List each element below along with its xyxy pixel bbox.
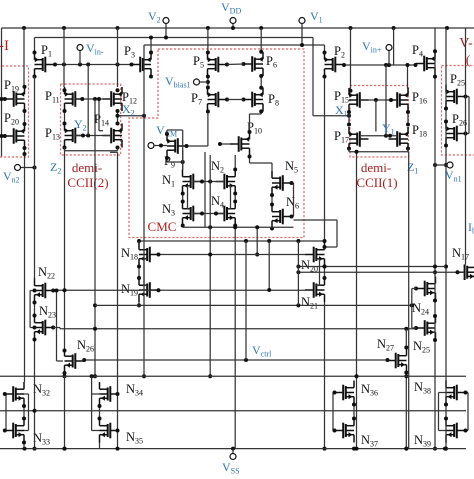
N34/N35 col joins <box>99 406 101 419</box>
terminal VDD <box>232 24 234 29</box>
svg-text:V-: V- <box>459 36 473 51</box>
right column x=446 full height <box>445 28 447 449</box>
demi1 right col cascode <box>407 112 409 125</box>
demi2 bottom bus <box>65 150 118 152</box>
x=257.2 short vertical <box>256 227 258 254</box>
vertical rail1 to P12 top <box>117 28 119 87</box>
N2/N4 col / center column <box>234 155 236 170</box>
transistor P9 <box>167 134 187 158</box>
N18-N21 gate frames <box>143 259 145 286</box>
transistor P17 <box>349 127 369 151</box>
transistor N20 <box>305 243 325 267</box>
transistor N3 <box>183 202 203 226</box>
transistor N35 <box>100 419 120 443</box>
x=269.2 vertical <box>268 241 270 290</box>
V-I converter box (right, cut off) <box>442 66 474 156</box>
transistor P4 <box>416 52 436 76</box>
transistor N27 <box>387 349 407 373</box>
transistor P6 <box>244 52 264 76</box>
terminal V1 <box>301 24 303 46</box>
demi-CCII(2) box <box>61 84 121 155</box>
P25/P26 bulk frame <box>466 96 470 98</box>
demi-CCII(1) box <box>350 86 409 158</box>
X1 node wire <box>313 115 349 117</box>
svg-text:demi-: demi- <box>361 160 391 175</box>
line E y=376.2 <box>0 375 466 377</box>
transistor N19 <box>139 278 159 302</box>
N22/N23 gate frame <box>29 291 31 328</box>
P19 bulk to left edge <box>2 98 6 100</box>
P10 bottom to N5 col <box>249 157 251 164</box>
V2 rail (rail2) <box>35 37 314 39</box>
demi1 left col cascode <box>348 112 350 125</box>
transistor N32 <box>5 382 25 406</box>
Vn1 column x=435 through P4 <box>434 28 436 449</box>
P8 down to P10 <box>260 111 262 114</box>
transistor P3 <box>132 53 152 77</box>
Z1 column <box>408 152 410 449</box>
terminal Vin+ <box>388 51 390 66</box>
svg-text:CCII(1): CCII(1) <box>356 175 397 190</box>
N32/N33 gate frame <box>28 394 30 431</box>
bus C y=328.8 <box>53 327 60 329</box>
transistor P20 <box>5 124 25 148</box>
N19 bus y=290.3 <box>53 289 305 291</box>
demi2 right col cascode <box>117 111 119 124</box>
transistor N36 <box>335 381 355 405</box>
transistor P15 <box>349 88 369 112</box>
demi2 lower gate bus <box>76 135 112 137</box>
wire P1 bottom / gate loop <box>33 75 37 79</box>
terminal Vn1 <box>447 162 453 168</box>
CMC inner bottom bus <box>183 226 294 228</box>
P6-P8 cascode <box>260 76 262 88</box>
transistor N24 <box>416 277 436 301</box>
transistor P2 <box>325 53 345 77</box>
transistor N17 <box>456 260 474 284</box>
N6 bulk to N20 <box>283 219 285 221</box>
N38/N39 col joins <box>444 403 448 407</box>
transistor N25 <box>416 316 436 340</box>
transistor P11 <box>65 87 85 111</box>
P19/P20 cascode column <box>24 111 26 124</box>
demi2 left col cascode <box>64 111 66 124</box>
P9 top <box>166 130 168 134</box>
N22/N23 structure <box>34 303 36 316</box>
transistor P1 <box>35 53 55 77</box>
VSS rail <box>0 448 466 450</box>
transistor P13 <box>65 124 85 148</box>
N38/N39 gate frame <box>438 393 440 431</box>
CMC box <box>129 49 304 238</box>
transistor N39 <box>446 419 466 443</box>
X2 vertical from rail3 <box>143 45 145 376</box>
transistor N4 <box>216 202 236 226</box>
long vertical x=356.5 <box>356 152 358 449</box>
transistor P25 <box>446 85 466 109</box>
demi1 lower gate bus <box>360 135 397 137</box>
N1/N2 gate bus <box>193 181 224 183</box>
Vin+ gate feed vertical <box>385 65 387 136</box>
vertical rail1 to demi1 <box>350 28 352 89</box>
long vertical x=118 <box>117 152 119 448</box>
transistor P5 <box>208 53 228 77</box>
CMC inner verticals <box>204 152 206 227</box>
x=246 vertical <box>245 241 247 360</box>
V2 to X1 vertical <box>312 38 314 116</box>
bus y=305.4 <box>95 304 412 306</box>
bus y=266.5 <box>298 266 446 268</box>
transistor P19 <box>5 87 25 111</box>
N20/N21 col <box>324 267 326 279</box>
N24/N25 gate frame <box>414 287 418 291</box>
vertical rail1 to P11 top <box>63 28 65 87</box>
P16 top feed <box>407 65 409 89</box>
N38/N39 bulk frame <box>466 392 469 394</box>
Vin+ bus y=65 <box>344 64 416 66</box>
N3/N4 gate bus <box>193 213 224 215</box>
svg-text:-I: -I <box>0 38 9 54</box>
N27 structure <box>405 329 407 349</box>
P3 gate loop down <box>150 77 152 79</box>
transistor N1 <box>183 170 203 194</box>
transistor P14 <box>103 124 123 148</box>
N36/N37 gate frame <box>333 392 335 394</box>
transistor N23 <box>35 316 55 340</box>
transistor N21 <box>305 278 325 302</box>
P5/P6 bulk dots <box>225 63 229 67</box>
transistor P10 <box>230 132 250 156</box>
N26 structure <box>64 373 66 376</box>
terminal Vn2 <box>21 167 35 169</box>
transistor N6 <box>272 205 292 229</box>
x=298.4 vertical <box>297 241 299 305</box>
Vin- bus y=64.5 <box>55 64 132 66</box>
N1/N3 col <box>182 150 184 170</box>
P20 bulk to left edge <box>2 135 6 137</box>
long vertical x=95 <box>94 99 96 376</box>
transistor N22 <box>35 279 55 303</box>
transistor N33 <box>5 419 25 443</box>
svg-text:(: ( <box>466 52 470 67</box>
N18/N19 col <box>138 241 140 243</box>
V-I converter box (left, cut off) <box>0 66 29 157</box>
V1 rail (rail3) <box>144 44 325 46</box>
transistor P16 <box>389 88 409 112</box>
transistor P8 <box>244 88 264 112</box>
Vbias1 terminal <box>194 79 200 85</box>
bus y=272.2 to N17 gate <box>298 271 464 273</box>
terminal V2 <box>165 24 167 38</box>
N5/N6 col <box>271 195 273 205</box>
N32/N33 left stubs <box>5 393 6 395</box>
N1-N4 gate frame <box>187 186 189 209</box>
N18 bus y=254.8 <box>159 254 306 256</box>
wire P1 top to rail2 corner <box>34 38 36 53</box>
wire P3 top to rail2 <box>150 38 152 53</box>
N32/N33 col joins <box>23 406 25 419</box>
N24/N25 col joins <box>433 299 437 303</box>
Vin- gate feed vertical <box>87 65 89 136</box>
demi1 bottom bus <box>349 151 408 153</box>
vertical rail1 to P19 top <box>23 28 25 87</box>
demi1 upper gate bus <box>360 99 397 101</box>
P10 bulk left <box>220 143 230 145</box>
demi2 cross feed <box>98 99 100 131</box>
P2 drain column down to N20 <box>324 77 326 243</box>
transistor N2 <box>216 170 236 194</box>
transistor P26 <box>446 122 466 146</box>
N22 bulk to bus <box>51 289 55 293</box>
transistor P18 <box>389 127 409 151</box>
N34/N35 bulk right <box>118 393 120 395</box>
terminal Vin- <box>79 51 81 65</box>
N34/N35 gate col <box>91 376 93 394</box>
P5-P7 cascode <box>207 77 209 88</box>
vertical rail1 to Vin+ bus <box>393 28 395 65</box>
left edge vertical <box>1 28 3 157</box>
N22 bulk to Z2 col <box>63 288 67 292</box>
N26 gate feed <box>56 291 58 362</box>
N36/N37 col joins <box>353 405 355 419</box>
demi2 upper gate bus <box>76 98 112 100</box>
V_ctrl bus <box>84 359 387 361</box>
X2 node wire <box>118 115 145 117</box>
bus y=241 below CMC <box>139 240 325 242</box>
transistor P12 <box>103 87 123 111</box>
P9 bottom to N1 col <box>166 158 168 162</box>
right edge column x=465.5 <box>465 28 467 265</box>
P5 col rail1 down <box>207 28 209 53</box>
VDD rail (rail1) <box>2 27 474 29</box>
svg-text:demi-: demi- <box>72 160 102 175</box>
svg-text:CMC: CMC <box>148 219 177 234</box>
transistor P7 <box>208 88 228 112</box>
transistor N37 <box>335 419 355 443</box>
line F y=410.8 <box>0 410 466 412</box>
svg-text:CCII(2): CCII(2) <box>67 175 108 190</box>
Z2 column <box>64 151 66 351</box>
demi1 cross feed <box>375 100 377 132</box>
transistor N26 <box>65 349 85 373</box>
N5/N6 bulk frame <box>292 182 294 184</box>
P7 down to P9 bulk level <box>207 112 209 147</box>
V1 to P2 top corner <box>324 45 326 53</box>
transistor N18 <box>139 243 159 267</box>
terminal VSS <box>232 449 234 454</box>
P25/P26 cascode col <box>444 107 448 111</box>
terminal VCM <box>148 143 154 149</box>
transistor N34 <box>100 382 120 406</box>
P6 col rail1 down <box>260 28 262 52</box>
long vertical x=34.5 <box>34 77 36 279</box>
transistor N38 <box>446 381 466 405</box>
transistor N5 <box>272 171 292 195</box>
